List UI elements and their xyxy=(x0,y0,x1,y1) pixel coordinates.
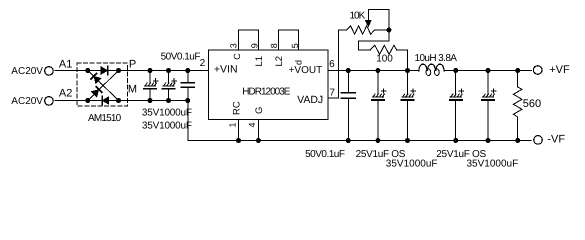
junction R2 bottom xyxy=(515,138,520,143)
junction pin1 on ground rail xyxy=(236,138,241,143)
capacitor C5 minus plate xyxy=(372,99,384,101)
capacitor C3 plates xyxy=(181,82,194,84)
pot wiper arrow xyxy=(366,21,371,27)
svg-text:8: 8 xyxy=(269,43,279,48)
svg-text:+VF: +VF xyxy=(549,64,570,76)
junction C2 bottom xyxy=(166,98,171,103)
junction bridge bottom-right node M xyxy=(116,98,121,103)
inductor L1 10uH 3.8A coil xyxy=(419,64,445,71)
terminal AC20V top xyxy=(45,67,54,76)
resistor R2 560 top lead xyxy=(517,71,519,88)
capacitor C5 hatched plus plate xyxy=(373,94,385,97)
capacitor C8 minus plate xyxy=(482,99,494,101)
diode D1 (A1 to P, top rail, pointing right) xyxy=(101,67,108,75)
svg-text:9: 9 xyxy=(250,43,260,48)
wire pot wiper loop xyxy=(368,10,389,31)
svg-text:7: 7 xyxy=(329,88,335,99)
svg-text:2: 2 xyxy=(200,58,206,69)
capacitor C5 plus sign xyxy=(381,89,386,93)
resistor R1 100 zigzag xyxy=(370,45,396,54)
wire VADJ riser (crosses +VOUT rail, no junction) xyxy=(338,30,340,98)
capacitor C8 bottom lead xyxy=(487,101,489,141)
capacitor C7 plus sign xyxy=(459,89,464,93)
capacitor C2 35V1000uF (x=168.5) top lead xyxy=(168,71,170,84)
wire pot left lead xyxy=(339,29,347,31)
svg-text:10uH 3.8A: 10uH 3.8A xyxy=(415,53,458,64)
junction C5 bottom xyxy=(375,138,380,143)
capacitor C7 minus plate xyxy=(450,99,462,101)
junction C6 top xyxy=(405,68,410,73)
junction C2 top xyxy=(166,68,171,73)
IC U1 HDR12003E body xyxy=(208,50,328,119)
capacitor C8 hatched plus plate xyxy=(483,94,495,97)
svg-text:4: 4 xyxy=(247,122,257,127)
resistor R2 560 zigzag xyxy=(513,87,522,117)
svg-text:35V1000uF: 35V1000uF xyxy=(386,158,438,169)
capacitor C7 25V1uF OS (x=455.7) top lead xyxy=(455,71,457,95)
capacitor C6 plus sign xyxy=(411,89,416,93)
junction C3 bottom xyxy=(185,98,190,103)
svg-text:HDR12003E: HDR12003E xyxy=(242,86,290,97)
junction C6 bottom xyxy=(405,138,410,143)
diode D4 (A2 to P, lower diagonal, pointing up-right) xyxy=(91,87,101,97)
junction bridge top-left xyxy=(85,68,90,73)
wire VADJ stub pin7 xyxy=(328,97,339,99)
svg-text:C: C xyxy=(232,53,242,60)
wire inductor to +VF terminal xyxy=(444,70,531,72)
junction C8 bottom xyxy=(486,138,491,143)
junction pot wiper/right end xyxy=(386,28,391,33)
wire M corner down to ground rail xyxy=(188,101,531,141)
svg-text:P: P xyxy=(129,59,136,71)
junction C1 bottom xyxy=(148,98,153,103)
svg-text:6: 6 xyxy=(329,59,335,70)
capacitor C6 bottom lead xyxy=(407,101,409,141)
svg-text:A2: A2 xyxy=(59,88,72,100)
svg-text:100: 100 xyxy=(376,54,393,65)
svg-text:RC: RC xyxy=(232,101,243,115)
svg-text:+VOUT: +VOUT xyxy=(289,65,323,76)
jumper wire pin8 to pin5 xyxy=(279,30,299,50)
junction C3 top xyxy=(185,68,190,73)
terminal +VF xyxy=(533,66,542,75)
capacitor C2 hatched plus plate xyxy=(164,83,176,86)
terminal AC20V bottom xyxy=(45,97,54,106)
junction C4 top xyxy=(346,68,351,73)
wire pin4 G to ground rail xyxy=(257,119,259,140)
wire pot right lead to wiper loop xyxy=(375,29,389,31)
svg-text:d: d xyxy=(294,60,304,65)
svg-text:10K: 10K xyxy=(350,11,366,22)
wire bridge diagonal A1 to M xyxy=(88,71,119,101)
svg-text:50V0.1uF: 50V0.1uF xyxy=(161,52,201,63)
capacitor C6 35V1000uF (x=407.5) top lead xyxy=(407,71,409,95)
svg-text:1: 1 xyxy=(227,122,237,127)
capacitor C7 bottom lead xyxy=(455,101,457,141)
capacitor C4 plates xyxy=(341,92,355,94)
svg-text:AM1510: AM1510 xyxy=(88,113,122,124)
svg-text:L2: L2 xyxy=(274,56,285,67)
junction bridge top-right node P xyxy=(116,68,121,73)
capacitor C2 minus plate xyxy=(163,88,175,90)
diode D3 (M to A1, upper diagonal, pointing up-left) xyxy=(91,73,101,83)
svg-text:AC20V: AC20V xyxy=(11,66,43,77)
resistor R2 560 bottom lead xyxy=(517,117,519,141)
capacitor C3 bottom lead xyxy=(187,88,189,101)
wire A1 rail (AC top terminal to IC pin 2) xyxy=(55,70,208,72)
capacitor C1 hatched plus plate xyxy=(145,83,157,86)
svg-text:M: M xyxy=(128,84,137,96)
capacitor C1 plus sign xyxy=(153,79,158,83)
junction C8 top xyxy=(486,68,491,73)
junction pin4 on ground rail xyxy=(256,138,261,143)
svg-text:+VIN: +VIN xyxy=(214,63,238,75)
junction bridge bottom-left xyxy=(85,98,90,103)
wire S-bend from pot to R1 xyxy=(359,30,389,50)
svg-text:AC20V: AC20V xyxy=(11,96,43,107)
junction C7 top xyxy=(453,68,458,73)
capacitor C4 bottom lead xyxy=(347,99,349,141)
capacitor C2 bottom lead xyxy=(168,90,170,101)
svg-text:G: G xyxy=(254,107,265,114)
capacitor C6 hatched plus plate xyxy=(403,94,415,97)
svg-text:35V1000uF: 35V1000uF xyxy=(142,121,192,132)
junction C7 bottom xyxy=(453,138,458,143)
wire bridge diagonal A2 to P xyxy=(88,71,119,101)
capacitor C5 25V1uF OS (x=377.9) top lead xyxy=(377,71,379,95)
capacitor C8 35V1000uF (x=488) top lead xyxy=(487,71,489,95)
jumper wire pin3 to pin9 xyxy=(238,30,258,50)
junction C4 bottom xyxy=(346,138,351,143)
capacitor C5 bottom lead xyxy=(377,101,379,141)
capacitor C2 plus sign xyxy=(172,79,177,83)
capacitor C6 minus plate xyxy=(402,99,414,101)
capacitor C1 minus plate xyxy=(144,88,156,90)
capacitor C7 hatched plus plate xyxy=(451,94,463,97)
wire R1 right lead down to +VOUT rail xyxy=(397,50,408,71)
capacitor C4 50V0.1uF (x=348.3) top lead xyxy=(347,71,349,93)
wire pin6 +VOUT rail to +VF terminal xyxy=(328,70,419,72)
svg-text:A1: A1 xyxy=(59,59,72,71)
svg-text:560: 560 xyxy=(523,98,541,110)
wire pin1 RC to ground rail xyxy=(238,119,240,140)
svg-text:VADJ: VADJ xyxy=(297,94,323,106)
svg-text:5: 5 xyxy=(290,43,300,48)
junction C5 top xyxy=(375,68,380,73)
svg-text:3: 3 xyxy=(229,43,239,48)
capacitor C1 35V1000uF (x=150) top lead xyxy=(149,71,151,84)
svg-text:35V1000uF: 35V1000uF xyxy=(467,158,519,169)
bridge rectifier AM1510 dashed box xyxy=(77,63,127,106)
terminal -VF xyxy=(534,136,543,145)
svg-text:35V1000uF: 35V1000uF xyxy=(142,108,192,119)
capacitor C8 plus sign xyxy=(491,89,496,93)
capacitor C1 bottom lead xyxy=(149,90,151,101)
junction C1 top xyxy=(148,68,153,73)
svg-text:L1: L1 xyxy=(254,56,265,67)
capacitor C3 50V0.1uF (x=187.8) top lead xyxy=(187,71,189,83)
potentiometer VR1 10K zigzag xyxy=(347,26,375,34)
diode D2 (M to A2, bottom rail, pointing left) xyxy=(102,97,109,105)
wire A2 rail (AC bottom terminal to corner) xyxy=(55,100,188,102)
junction R2 top xyxy=(515,68,520,73)
svg-text:50V0.1uF: 50V0.1uF xyxy=(305,149,345,160)
svg-text:-VF: -VF xyxy=(547,134,565,146)
